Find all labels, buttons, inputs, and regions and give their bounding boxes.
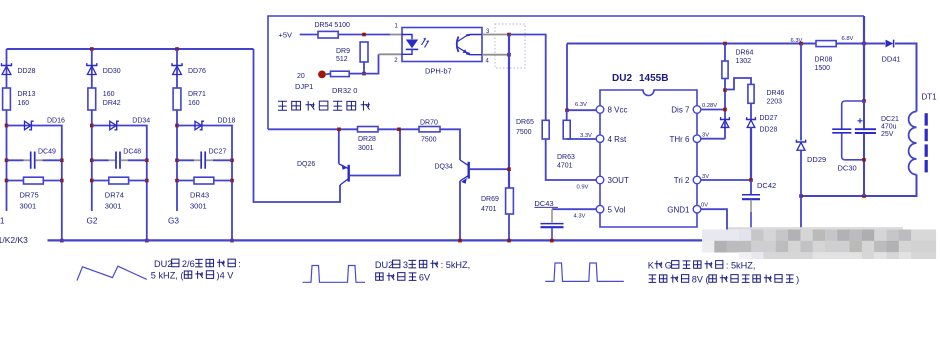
svg-text:DD27: DD27 xyxy=(760,115,778,122)
junction +5V line / DR9 top xyxy=(362,33,366,37)
node 3V (Tri2) xyxy=(702,174,709,180)
wire DQ34 emitter to bottom bus xyxy=(459,181,461,241)
wire cap loop top edge xyxy=(845,100,864,102)
label DD41 xyxy=(882,55,901,64)
label DR64 / 1302 xyxy=(736,50,754,66)
junction branch 2 / cap row xyxy=(90,159,94,163)
wire GND1 down to bus xyxy=(701,209,727,232)
node 0.28V (Dis7) xyxy=(702,103,717,109)
wire Vcc node to pin 8 xyxy=(567,109,596,111)
pin 2 label (opto) xyxy=(394,58,398,64)
svg-text:DU2: DU2 xyxy=(154,259,172,269)
svg-text:DD29: DD29 xyxy=(807,155,826,164)
svg-text:DC43: DC43 xyxy=(534,199,553,208)
svg-text:DR63: DR63 xyxy=(557,154,575,161)
svg-text:DC48: DC48 xyxy=(123,149,141,156)
label K/G waveform text line2 xyxy=(648,275,799,285)
svg-text:DQ34: DQ34 xyxy=(435,164,453,171)
junction y196 line / cap line xyxy=(862,194,866,198)
svg-text:DR08: DR08 xyxy=(815,57,833,64)
wire branch 3 vertical (gate stub) xyxy=(176,49,178,211)
label DR54 5100 xyxy=(315,22,351,29)
svg-text:7500: 7500 xyxy=(421,137,437,144)
svg-text:6.3V: 6.3V xyxy=(791,38,803,44)
wire pin5 to DC43 xyxy=(552,208,597,210)
junction top bus / branch 2 xyxy=(90,47,94,51)
wire bottom bus K1/K2/K3 (y=240.6) xyxy=(48,239,703,241)
label DC30 xyxy=(838,164,857,173)
junction bottom bus / right vertical 3 xyxy=(230,239,234,243)
label DR32 0 xyxy=(332,86,357,95)
junction Dis7 / DD27 top xyxy=(723,108,727,112)
svg-text:DR9: DR9 xyxy=(336,48,350,55)
resistor DR9 512 xyxy=(360,42,368,62)
node 4.3V (pin5) xyxy=(574,214,586,220)
svg-text:20: 20 xyxy=(297,73,305,80)
junction rail / DD29 line xyxy=(799,42,803,46)
label DR9 / 512 xyxy=(336,48,350,63)
svg-text:5 kHZ, (: 5 kHZ, ( xyxy=(151,271,184,281)
op-amp U2 timer IC DU2 1455B box xyxy=(600,90,697,227)
wire gray stub to opto pin 2 xyxy=(379,53,403,55)
svg-text:DD18: DD18 xyxy=(218,118,236,125)
wire node up to opto pin2 xyxy=(364,54,379,73)
pin label 5 Vol xyxy=(608,205,626,214)
label DD34 xyxy=(132,118,150,125)
wire DQ26 base to DR28/DR70 node xyxy=(350,129,401,175)
junction opto pin3 / vertical 509 xyxy=(507,33,511,37)
label DR63 / 4701 xyxy=(557,154,575,170)
wire gray stub right of capacitor DC49 xyxy=(35,159,42,161)
wire DD28 to Tri2 node xyxy=(750,127,752,180)
wire enclosure box left/top edge xyxy=(268,16,864,129)
diode DD41 xyxy=(886,40,894,48)
svg-text:+5V: +5V xyxy=(279,30,293,39)
node 6.8V xyxy=(842,36,854,42)
svg-text:DD16: DD16 xyxy=(47,118,65,125)
junction right vertical 1 / cap row xyxy=(60,159,64,163)
label DR46 / 2203 xyxy=(767,90,785,106)
core bars DT1 xyxy=(925,113,928,172)
label DR74 / 3001 xyxy=(105,190,124,210)
dotted box around opto output xyxy=(495,24,525,68)
capacitor DC48 xyxy=(116,152,120,169)
wire DR64 bottom to Dis7 node xyxy=(724,79,726,139)
svg-text:3001: 3001 xyxy=(105,202,122,211)
label DT1 xyxy=(922,93,938,102)
pin 4 label (opto) xyxy=(486,59,490,65)
node 20 (test point) xyxy=(297,73,305,80)
svg-text:G3: G3 xyxy=(168,217,179,226)
label DU2 xyxy=(612,73,632,84)
wire DR69 to bottom bus xyxy=(508,214,510,241)
junction right vertical 2 / cap row xyxy=(145,159,149,163)
label DC43 underline xyxy=(534,206,558,208)
label 160 / DR42 xyxy=(103,91,121,107)
wire DJP1 to DR32 xyxy=(326,73,331,76)
wire DD29 line top xyxy=(800,44,802,141)
diode DD28 (zener) xyxy=(747,117,756,127)
svg-text:K1/K2/K3: K1/K2/K3 xyxy=(0,235,28,245)
svg-text:DR64: DR64 xyxy=(736,50,754,57)
wire DD4 to transformer corner xyxy=(895,44,917,112)
resistor DR69 4701 xyxy=(506,188,514,214)
resistor DR28 3001 xyxy=(358,127,379,132)
junction branch 2 / diode row xyxy=(90,124,94,128)
capacitor DC49 xyxy=(31,152,35,169)
svg-text:3001: 3001 xyxy=(20,202,37,211)
wire resistor row cell 1 (y=180.5) xyxy=(7,180,62,182)
svg-text:3: 3 xyxy=(403,260,408,270)
diode DD34 (horizontal) xyxy=(110,121,119,130)
svg-text:0.9V: 0.9V xyxy=(577,185,589,191)
capacitor DC21 470u 25V (electrolytic) xyxy=(855,101,876,196)
wire DR63 top stub xyxy=(566,110,568,120)
svg-text:6V: 6V xyxy=(419,273,431,283)
svg-text:)4 V: )4 V xyxy=(217,271,235,281)
junction opto pin4 / vertical 509 xyxy=(507,53,511,57)
node 6.3V (rail) xyxy=(791,38,803,44)
label 1455B xyxy=(639,73,668,84)
svg-text:3V: 3V xyxy=(702,174,709,180)
label DD28 xyxy=(18,68,36,75)
svg-text:3001: 3001 xyxy=(190,202,207,211)
junction branch 1 / resistor row xyxy=(5,179,9,183)
pin circle left 8 Vcc xyxy=(596,106,604,114)
wire branch 2 vertical (gate stub) xyxy=(91,49,93,211)
capacitor DC42 xyxy=(742,180,760,233)
pin 1 label (opto) xyxy=(395,24,399,30)
pin circle right GND1 xyxy=(693,205,701,213)
wire cap line x=864 xyxy=(863,16,865,101)
svg-text:: 5kHZ,: : 5kHZ, xyxy=(726,261,756,271)
op-amp U1 optocoupler DPH-b7 box xyxy=(402,28,482,62)
svg-text:1302: 1302 xyxy=(736,58,752,65)
label DD30 xyxy=(103,68,121,75)
wire DR64/DD27 line top xyxy=(724,44,726,62)
wire cap loop bottom edge xyxy=(845,159,864,161)
svg-text:3V: 3V xyxy=(702,133,709,139)
diode DD28 (zener, branch 1 top) xyxy=(2,63,12,74)
svg-text:DR71: DR71 xyxy=(188,91,206,98)
resistor DR75 3001 xyxy=(24,177,44,184)
junction cap loop bottom xyxy=(862,158,866,162)
svg-text:THr 6: THr 6 xyxy=(670,135,691,144)
svg-text:G1: G1 xyxy=(0,217,5,226)
junction cap loop top xyxy=(862,99,866,103)
label DD18 xyxy=(218,118,236,125)
svg-text:DD41: DD41 xyxy=(882,55,901,64)
wire transformer bottom to y=196 line xyxy=(801,175,917,197)
waveform sawtooth DU2 pin2/6 xyxy=(77,266,147,280)
svg-text:DC30: DC30 xyxy=(838,164,857,173)
svg-text:DR13: DR13 xyxy=(18,91,36,98)
node 3V (THr6) xyxy=(702,133,709,139)
label 7500 xyxy=(421,137,437,144)
inductor DT1 winding xyxy=(909,112,917,175)
resistor DR46 2203 xyxy=(748,84,754,103)
wire gray stub to opto pin 1 xyxy=(390,34,402,36)
svg-text:Dis 7: Dis 7 xyxy=(671,106,690,115)
label DQ26 xyxy=(297,161,315,168)
pin circle right Tri 2 xyxy=(693,176,701,184)
wire resistor row cell 2 (y=180.5) xyxy=(92,180,147,182)
wire gray stub opto pin 3 xyxy=(482,34,509,36)
resistor DR70 7500 xyxy=(419,127,440,132)
resistor DR74 3001 xyxy=(109,177,129,184)
wire cap row cell 1 right xyxy=(43,159,62,161)
label DR70 xyxy=(420,120,438,127)
svg-text:1500: 1500 xyxy=(815,65,831,72)
svg-text:160: 160 xyxy=(18,100,30,107)
diode DD27 (zener) xyxy=(721,117,730,127)
svg-text:DD28: DD28 xyxy=(18,68,36,75)
resistor DR71 160 (branch 3) xyxy=(173,88,181,110)
resistor DR63 4701 xyxy=(563,120,570,139)
wire DR70 to DQ34 collector xyxy=(440,129,460,160)
wire cap row cell 2 left (y=160.3) xyxy=(92,159,109,161)
svg-text:DC42: DC42 xyxy=(757,181,776,190)
svg-text:2203: 2203 xyxy=(767,99,783,106)
label DJP1 xyxy=(295,82,313,91)
wire left bus to DQ26 collector (L-path) xyxy=(254,49,341,202)
label DR69 / 4701 xyxy=(481,196,499,213)
svg-text:160: 160 xyxy=(188,100,200,107)
svg-text:DR70: DR70 xyxy=(420,120,438,127)
label DC21 470u 25V xyxy=(881,116,899,138)
svg-text:470u: 470u xyxy=(881,124,897,131)
junction branch 1 / diode row xyxy=(5,124,9,128)
label DU2 pin2/6 sawtooth text line1 xyxy=(154,259,241,269)
junction branch 1 / cap row xyxy=(5,159,9,163)
light arrows inside optocoupler xyxy=(422,38,429,48)
wire Vcc rail corner down to pin 8 xyxy=(566,44,568,111)
capacitor DC27 xyxy=(201,152,205,169)
node G2 xyxy=(87,217,98,226)
pin circle right Dis 7 xyxy=(693,106,701,114)
node G3 xyxy=(168,217,179,226)
node K1/K2/K3 xyxy=(0,235,28,245)
node 0V (GND1) xyxy=(701,203,708,209)
pin circle right THr 6 xyxy=(693,135,701,143)
junction right vertical 2 / resistor row xyxy=(145,179,149,183)
svg-text:DR43: DR43 xyxy=(190,190,209,199)
wire cap row cell 3 left (y=160.3) xyxy=(177,159,194,161)
svg-text:DC49: DC49 xyxy=(38,149,56,156)
wire gray stub right of capacitor DC48 xyxy=(121,159,128,161)
svg-text:3.3V: 3.3V xyxy=(580,133,592,139)
resistor DR43 3001 xyxy=(194,177,214,184)
svg-text:DD30: DD30 xyxy=(103,68,121,75)
wire DR32 to node xyxy=(349,73,364,75)
diode DD16 (horizontal) xyxy=(25,121,34,130)
svg-text:DD34: DD34 xyxy=(132,118,150,125)
pin label 8 Vcc xyxy=(608,106,628,115)
junction bottom bus / right vertical 1 xyxy=(60,239,64,243)
svg-text:DR46: DR46 xyxy=(767,90,785,97)
svg-text:DPH-b7: DPH-b7 xyxy=(425,67,452,76)
svg-text:DR74: DR74 xyxy=(105,190,124,199)
junction rail / DR64 xyxy=(723,42,727,46)
wire Tri2 to DD28/DC42 node xyxy=(701,179,751,181)
pin circle left 5 Vol xyxy=(596,205,604,213)
waveform pulses K/G terminals xyxy=(545,263,624,281)
LED inside optocoupler xyxy=(402,35,418,55)
svg-text:DU2: DU2 xyxy=(612,73,632,84)
node 3.3V (pin4) xyxy=(580,133,592,139)
junction branch 2 / resistor row xyxy=(90,179,94,183)
svg-text:DD28: DD28 xyxy=(760,127,778,134)
phototransistor inside optocoupler xyxy=(457,35,482,55)
capacitor DC30 (plain, left branch) xyxy=(832,101,851,160)
label DD29 xyxy=(807,155,826,164)
junction Tri2 / DC42 xyxy=(749,178,753,182)
node +5V xyxy=(279,30,293,39)
svg-text:DU2: DU2 xyxy=(375,260,393,270)
pin circle left 4 Rst xyxy=(596,135,604,143)
label 晶闸管开通信号 (thyristor turn-on signal) xyxy=(278,101,370,110)
svg-text:0V: 0V xyxy=(701,203,708,209)
junction branch 3 / resistor row xyxy=(175,179,179,183)
label DR08 / 1500 xyxy=(815,57,833,73)
label DR13 / 160 xyxy=(18,91,36,107)
mosaic watermark (censored) xyxy=(702,230,936,260)
wire diode row cell 2 (y=125.5) xyxy=(92,126,147,241)
transistor DQ34 (NPN) xyxy=(460,160,469,184)
pin label 4 Rst xyxy=(608,135,627,144)
junction top bus / branch 3 xyxy=(175,47,179,51)
junction DQ34 emitter / bottom bus xyxy=(458,239,462,243)
resistor DR64 1302 xyxy=(722,61,728,79)
capacitor DC43 xyxy=(541,209,564,240)
svg-text:5 Vol: 5 Vol xyxy=(608,205,626,214)
svg-text:6.3V: 6.3V xyxy=(575,102,587,108)
node 0.9V (pin3) xyxy=(577,185,589,191)
svg-text:25V: 25V xyxy=(881,131,894,138)
svg-text:Tri 2: Tri 2 xyxy=(674,176,690,185)
label DU2 pin3 waveform text line1 xyxy=(375,260,470,270)
wire DR63 bottom to pin 4 xyxy=(567,138,597,140)
label DU2 pin2/6 sawtooth text line2 xyxy=(151,271,234,281)
wire gray stub right of capacitor DC27 xyxy=(206,159,213,161)
label DR71 / 160 xyxy=(188,91,206,107)
svg-text:: 5kHZ,: : 5kHZ, xyxy=(441,260,471,270)
junction y196 line / DD29 line xyxy=(799,194,803,198)
label DC27 xyxy=(209,149,227,156)
svg-text:DR75: DR75 xyxy=(20,190,39,199)
svg-text:): ) xyxy=(796,275,799,285)
wire opto pin3 node to DR65 top xyxy=(509,35,546,121)
wire diode row cell 3 (y=125.5) xyxy=(177,126,232,241)
wire cap row cell 3 right xyxy=(213,159,232,161)
label DQ34 xyxy=(435,164,453,171)
wire staircase DR64 node to DR46 xyxy=(725,78,751,90)
wire DR08 to DD4 xyxy=(836,43,885,45)
svg-text:DD76: DD76 xyxy=(188,68,206,75)
svg-text:1455B: 1455B xyxy=(639,73,668,84)
label DR28 / 3001 xyxy=(358,136,376,152)
junction DR64 bottom / DR46 branch xyxy=(723,88,727,92)
node G1 xyxy=(0,217,5,226)
diode DD18 (horizontal) xyxy=(195,121,204,130)
svg-text:6.8V: 6.8V xyxy=(842,36,854,42)
resistor DR65 7500 xyxy=(542,120,549,139)
wire DQ34 base to node (509,169) xyxy=(470,168,509,170)
junction right vertical 1 / resistor row xyxy=(60,179,64,183)
svg-text:4701: 4701 xyxy=(557,163,573,170)
svg-text:DQ26: DQ26 xyxy=(297,161,315,168)
svg-text:4701: 4701 xyxy=(481,206,497,213)
wire gray stub left of capacitor DC48 xyxy=(109,159,116,161)
resistor DR32 0 xyxy=(331,71,350,76)
svg-text:DR28: DR28 xyxy=(358,136,376,143)
label DD76 xyxy=(188,68,206,75)
wire vertical x=509 (opto output to bus) xyxy=(508,35,510,189)
svg-text:G2: G2 xyxy=(87,217,98,226)
label K/G waveform text line1 xyxy=(648,261,756,271)
wire DR65 to OUT pin xyxy=(546,139,597,180)
svg-text:G: G xyxy=(665,261,672,271)
junction right vertical 3 / resistor row xyxy=(230,179,234,183)
pin label GND1 xyxy=(667,205,690,214)
wire DR54 to opto pin1 xyxy=(338,34,390,36)
pin 3 label (opto) xyxy=(486,29,490,35)
svg-text:DC21: DC21 xyxy=(881,116,899,123)
svg-text:DR32 0: DR32 0 xyxy=(332,86,357,95)
svg-text:4.3V: 4.3V xyxy=(574,214,586,220)
svg-text:3OUT: 3OUT xyxy=(608,176,629,185)
wire top bus of gate cells (y=49) xyxy=(7,48,254,50)
junction right vertical 3 / cap row xyxy=(230,159,234,163)
wire DR28 row (y=129.3) from box corner xyxy=(268,128,358,130)
svg-text:DR69: DR69 xyxy=(481,196,499,203)
diode DD30 (zener, branch 2 top) xyxy=(87,63,97,74)
svg-text:2/6: 2/6 xyxy=(182,259,195,269)
svg-text:8 Vcc: 8 Vcc xyxy=(608,106,628,115)
wire gray stub left of capacitor DC27 xyxy=(194,159,201,161)
wire DR9 bottom to node xyxy=(363,62,365,74)
label DC48 xyxy=(123,149,141,156)
label DC42 xyxy=(757,181,776,190)
svg-text:4 Rst: 4 Rst xyxy=(608,135,627,144)
junction bottom bus / right vertical 2 xyxy=(145,239,149,243)
wire between DR28 and DR70 xyxy=(378,128,419,130)
wire DQ26 emitter up to DR28 node xyxy=(338,129,340,164)
label DD27 / DD28 xyxy=(760,115,778,134)
pin label 3OUT xyxy=(608,176,629,185)
junction rail / cap line xyxy=(862,42,866,46)
junction DR9 / DR32 / opto pin2 node xyxy=(362,72,366,76)
svg-text:DJP1: DJP1 xyxy=(295,82,313,91)
resistor DR13 160 (branch 1) xyxy=(3,88,11,110)
wire diode row cell 1 (y=125.5) xyxy=(7,126,62,241)
label DR65 / 7500 xyxy=(516,119,534,136)
junction DC43 / bottom bus xyxy=(550,239,554,243)
label DC49 xyxy=(38,149,56,156)
wire resistor row cell 3 (y=180.5) xyxy=(177,180,232,182)
node 6.3V (pin8) xyxy=(575,102,587,108)
wire Dis7 to DD27 node xyxy=(701,109,725,111)
junction DQ34 base / vertical 509 xyxy=(507,167,511,171)
resistor 160 DR42 (branch 2) xyxy=(88,88,96,110)
label DR75 / 3001 xyxy=(20,190,39,210)
wire gray stub left of capacitor DC49 xyxy=(24,159,31,161)
svg-text:DR65: DR65 xyxy=(516,119,534,126)
svg-text:7500: 7500 xyxy=(516,129,532,136)
label DC43 xyxy=(534,199,553,208)
svg-text:DT1: DT1 xyxy=(922,93,938,102)
pin circle left 3OUT xyxy=(596,176,604,184)
